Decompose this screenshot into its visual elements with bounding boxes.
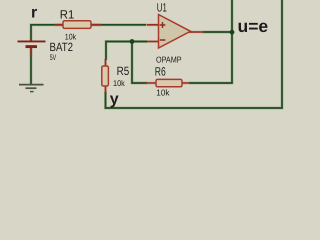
svg-text:10k: 10k [156,88,170,98]
battery BAT2 pins [30,39,33,57]
wire: battery positive up and right to op-amp +IN [31,25,146,41]
node A junction dot at -IN net [130,39,135,44]
node B output junction dot u=e [230,30,235,35]
wire: node A down and right to R6 left lead [132,42,147,84]
svg-text:OPAMP: OPAMP [156,55,182,65]
svg-text:R5: R5 [117,64,130,78]
svg-text:5V: 5V [50,53,57,62]
resistor R5 body [102,66,109,86]
svg-text:R1: R1 [60,7,75,21]
resistor R1 leads [55,23,101,26]
resistor R6 body [156,79,182,86]
ground [19,85,44,92]
battery BAT2 negative plate [26,45,38,48]
wire: op-amp output to node B [203,31,232,34]
svg-text:u=e: u=e [238,16,269,36]
op-amp U1 body [159,15,191,49]
resistor R5 leads [104,59,107,94]
svg-text:BAT2: BAT2 [50,40,74,54]
svg-text:10k: 10k [113,79,126,88]
svg-text:U1: U1 [157,0,167,14]
op-amp non-inverting plus symbol [160,22,166,28]
op-amp inverting minus symbol [160,39,166,41]
wire: R5 bottom along bottom rail and up right edge riser to top [106,0,283,108]
wire: R5 top up and right to op-amp -IN [106,42,147,61]
op-amp U1 input pins [147,25,159,42]
resistor R1 body [63,21,91,29]
svg-text:y: y [110,91,119,108]
svg-text:r: r [31,5,37,22]
wire: battery negative down to ground [30,47,33,85]
wire: R6 right lead to output riser going to top edge [189,0,232,83]
resistor R6 leads [145,82,190,85]
op-amp U1 output pin [189,31,204,34]
battery BAT2 positive plate [18,40,46,42]
svg-text:R6: R6 [155,65,166,79]
